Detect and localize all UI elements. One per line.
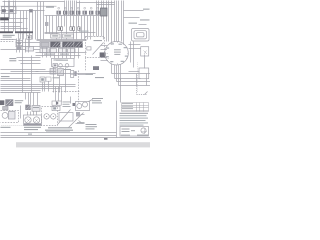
cluster labels [63, 102, 71, 108]
wire vertical group mid [37, 2, 39, 40]
label pump text row1 [24, 127, 41, 128]
valve row block 5 [83, 11, 87, 15]
table cell text r1 [122, 102, 133, 105]
wire [32, 11, 34, 40]
wire [59, 76, 61, 93]
wire [18, 34, 20, 48]
wire [53, 68, 55, 93]
wire right net C [117, 81, 151, 83]
label bottom mid 2 [86, 124, 97, 125]
label left tank [1, 76, 10, 77]
wire top horizontal A [3, 1, 65, 3]
page edge line [1, 137, 151, 139]
bank lower row box 4 [68, 49, 76, 53]
solenoid block a [52, 101, 56, 105]
hose bundle to swivel [114, 1, 116, 42]
dark box below enclosure [93, 66, 99, 70]
wire top horizontal B [77, 2, 115, 4]
blade cylinder [1, 18, 9, 20]
wire [106, 1, 108, 42]
drive diagonal 2 [69, 113, 84, 128]
valve row block 2 [63, 11, 67, 15]
wire [11, 71, 39, 73]
dashed pilot vertical [78, 71, 80, 103]
notes row 6 [120, 125, 144, 126]
drawing bottom line 1 [1, 132, 117, 134]
valve box TL1 [2, 9, 6, 12]
wire [1, 26, 21, 28]
dotted pilot line [137, 63, 139, 93]
wire [70, 1, 72, 16]
tick small [28, 134, 32, 135]
wire [30, 93, 32, 105]
wire label line right 3 [124, 17, 140, 19]
label bank below 2 [60, 54, 69, 55]
pilot valve label lines [17, 57, 41, 59]
gear pump dot 2 [53, 116, 54, 117]
small box in enclosure [87, 47, 91, 50]
track frame dark band [0, 31, 13, 33]
label strainer [15, 100, 24, 101]
swivel joint circle [105, 41, 129, 65]
wire [66, 48, 68, 59]
wire [40, 2, 42, 40]
notes row 5 [120, 122, 149, 123]
upper mid box 2 [46, 77, 51, 81]
page shadow band [16, 142, 150, 147]
wire [114, 65, 116, 79]
wire circle to box A [129, 44, 141, 46]
cushion core [74, 71, 76, 76]
wire [31, 56, 33, 93]
dashed pump box center [42, 107, 58, 126]
wire [130, 42, 132, 63]
pump fittings [28, 112, 37, 116]
wire right net B [115, 78, 141, 80]
cylinder rod wire [9, 18, 28, 20]
drawing bottom line 2 [1, 135, 117, 137]
label center bottom row3 [46, 130, 70, 133]
label bottom mid 1 [77, 122, 85, 123]
control valve bank body [40, 42, 83, 48]
label left bottom [1, 127, 11, 128]
main pump circle 1 [25, 117, 31, 123]
label hydraulic tank [46, 7, 54, 8]
wire [54, 53, 56, 59]
bank hatch overlay [53, 42, 83, 47]
notes row 1 [120, 113, 149, 114]
bus double line lower [37, 40, 87, 42]
wire [70, 48, 72, 59]
supply bus double [1, 90, 41, 92]
wire [101, 57, 108, 59]
wire left labels [1, 78, 31, 80]
relief stack hatched [101, 8, 108, 16]
wire [36, 71, 56, 73]
wire long return lower [1, 73, 96, 75]
relief valve box [58, 69, 64, 76]
wire [1, 28, 28, 30]
box text [52, 35, 58, 36]
solenoid manifold box [52, 58, 75, 66]
box core [28, 36, 30, 38]
title box [120, 127, 149, 137]
pump mark 1 [27, 119, 31, 123]
wire [62, 48, 64, 59]
wire [116, 1, 118, 42]
valve frame TL [2, 7, 17, 14]
wire [111, 1, 113, 43]
component cluster mid-left box 1 [27, 35, 32, 39]
wire under valve row [45, 15, 101, 17]
label swivel arrow [129, 23, 138, 24]
bank lower row box 3 [59, 49, 67, 53]
wire [35, 11, 37, 40]
bank section hatched 3 [75, 42, 83, 47]
wire [116, 65, 118, 82]
wire horizontal mid [36, 52, 87, 54]
solenoid pair A [58, 27, 63, 31]
wire vertical V4 [13, 1, 15, 32]
wire short right [129, 71, 140, 73]
accumulator box right lower [139, 68, 149, 79]
wire [19, 60, 41, 62]
table cell text r3 [122, 107, 133, 110]
pump hatch bar [24, 123, 41, 125]
wire [56, 87, 62, 102]
coupling box [59, 113, 73, 122]
sub core [54, 64, 56, 66]
bank section hatched 1 [51, 42, 60, 47]
wire [118, 65, 120, 86]
pilot dashed lines TL [1, 39, 15, 41]
valve box below manifold 1 [50, 69, 56, 74]
wire top-left bus [1, 10, 45, 12]
wire right net A [112, 73, 151, 75]
wire vertical V5 [15, 1, 17, 32]
track frame dark band b [15, 31, 33, 33]
small valve bottom mid [76, 112, 80, 117]
wire [123, 1, 125, 44]
label strainer 2 [15, 102, 22, 103]
label blade cylinder [3, 35, 15, 36]
manifold port circle 2 [65, 64, 69, 68]
title area left edge [116, 101, 118, 138]
valve row block 1 [57, 11, 61, 15]
solenoid block b [57, 101, 61, 105]
pilot pump circle [2, 113, 8, 119]
travel pump box [76, 102, 90, 111]
valve row block 4 [76, 11, 80, 15]
label center bottom row2 [45, 130, 73, 131]
leader2 [79, 121, 83, 124]
valve row block 3 [70, 11, 74, 15]
arrow mark [145, 92, 148, 95]
strainer box hatched [5, 99, 13, 106]
wire [101, 60, 109, 62]
swivel rim ticks [107, 42, 129, 65]
label right edge 2 [140, 19, 150, 20]
label bottom mid 4 [86, 128, 95, 129]
wire [37, 93, 39, 106]
wire [101, 1, 103, 37]
dashed engine box left [1, 111, 19, 123]
wire tank return [1, 69, 46, 71]
swivel center text 1 [114, 49, 121, 50]
main pump circle 2 [33, 117, 39, 123]
motor box [8, 112, 15, 120]
valve box TL1b [10, 9, 14, 12]
check valve box right upper [141, 47, 149, 56]
wire vertical V3 [9, 1, 11, 19]
label under band [3, 37, 12, 38]
wire [45, 33, 59, 35]
wire [120, 65, 122, 81]
bank lower row box 1 [40, 49, 48, 53]
cushion valve cluster [71, 71, 74, 74]
dark port box [100, 53, 105, 57]
core [56, 102, 58, 104]
solenoid A core [60, 28, 61, 30]
logo cross [142, 129, 148, 135]
rim text specks [106, 43, 128, 62]
wire comb drops [47, 16, 94, 40]
wire vertical V2 [8, 1, 10, 32]
leader line [89, 100, 93, 102]
wire [101, 49, 108, 51]
label cushion [86, 74, 94, 75]
table small marks bottom [131, 130, 135, 131]
manifold sub box [53, 64, 58, 68]
solenoid B core [72, 28, 73, 30]
return bus 1 [1, 84, 76, 86]
notes row 2 [120, 115, 147, 116]
upper mid text [53, 77, 60, 78]
pilot cluster marks [17, 47, 22, 51]
label pilot valve row1 [9, 58, 16, 59]
valve box TL2 [29, 9, 33, 12]
gear pump circle 1 [44, 114, 49, 119]
pilot cluster verticals [17, 39, 29, 53]
notes row 4 [120, 120, 146, 121]
swivel joint pointer diagonal [93, 43, 104, 55]
wire drops from bank [42, 48, 44, 58]
gear pump circle 2 [51, 114, 56, 119]
net vertical b [136, 74, 138, 86]
wire [43, 2, 45, 40]
dashed boundary horizontal [53, 91, 80, 93]
label pilot valve row2 [9, 60, 16, 61]
return bus 2 [1, 86, 76, 88]
wire [144, 55, 146, 69]
filter box dark [0, 101, 4, 105]
swivel dashed enclosure [86, 37, 105, 58]
wire [58, 48, 60, 59]
label right edge 1 [143, 9, 150, 10]
label cushion 2 [95, 77, 104, 78]
wire [1, 22, 23, 24]
title bottom text2 [121, 135, 130, 136]
wire label line right 1 [124, 10, 144, 12]
hose reel spiral inner [134, 31, 147, 39]
solenoid C core [79, 28, 80, 30]
solenoid pair B [70, 27, 75, 31]
wire verticals center-left [22, 58, 24, 93]
wire [118, 1, 120, 42]
dotted row [2, 125, 23, 127]
logo circle [141, 128, 146, 133]
label swivel joint [94, 40, 103, 41]
title box text 2 [122, 131, 130, 132]
upper mid boxes [40, 77, 45, 82]
hose reel spiral [132, 29, 150, 42]
swivel center text 3 [114, 54, 120, 55]
wire [121, 1, 123, 42]
bus double line upper [37, 39, 87, 41]
net vertical a [120, 79, 122, 103]
wire [16, 42, 41, 44]
solenoid pair C [78, 27, 80, 31]
hose reel spiral core [137, 33, 145, 37]
manifold port circle 1 [59, 64, 63, 68]
core [53, 107, 56, 109]
valve row block 7 [96, 11, 100, 15]
check valve mark [144, 51, 148, 55]
notes row 3 [120, 118, 149, 119]
wire [76, 1, 78, 16]
check box mid [26, 47, 34, 52]
wire [1, 49, 46, 51]
solenoid block c [52, 106, 60, 110]
wire [97, 4, 115, 6]
wire [29, 11, 31, 36]
wire [1, 80, 31, 82]
wire [21, 63, 41, 65]
table cell text r2 [122, 105, 133, 108]
wire [29, 34, 31, 48]
box core [17, 42, 20, 44]
wire [78, 48, 80, 59]
net vertical c [146, 74, 148, 86]
pilot line box top A [51, 34, 60, 38]
riser bundle right-center [96, 1, 98, 37]
pump mark 2 [35, 119, 39, 123]
gear pump dot 1 [46, 116, 47, 117]
box with text [32, 106, 40, 112]
wire [1, 92, 41, 94]
small box [3, 107, 8, 111]
wire [46, 48, 48, 58]
wires into swivel left [101, 45, 108, 47]
wire drops to pumps [25, 93, 27, 100]
spiral drop wires [133, 42, 135, 68]
bank section hatched 2 [63, 42, 74, 47]
wire [23, 11, 25, 40]
riser caps [58, 7, 99, 9]
label pump text row2 [24, 129, 38, 130]
wire [74, 48, 76, 59]
wire [98, 1, 100, 37]
wire [74, 1, 76, 16]
label bank below [44, 54, 54, 55]
wire [22, 34, 24, 58]
return bus 3 [1, 88, 61, 90]
dashed vertical boundary [85, 58, 87, 71]
travel pump circle 2 [83, 102, 88, 107]
wire [1, 39, 17, 41]
core [41, 78, 44, 81]
label travel motor 2 [92, 100, 101, 101]
wire vertical group left-center [20, 11, 22, 40]
box text [64, 35, 71, 36]
wire [103, 1, 105, 40]
main pump frame [24, 115, 42, 126]
wire [20, 106, 22, 119]
wire [108, 1, 110, 42]
wire right net D [119, 85, 151, 87]
wire circle to box B [129, 48, 141, 50]
wire [26, 11, 28, 36]
wire top-left horizontal [1, 5, 57, 7]
swivel center text 2 [114, 52, 121, 53]
dashed corner v [136, 86, 138, 95]
wire vertical V1 [4, 1, 6, 32]
relief arrow [59, 70, 63, 75]
label travel motor 3 [92, 102, 102, 103]
label pump box [33, 107, 39, 108]
wire [65, 68, 67, 93]
bank inlet section [41, 43, 49, 47]
label under solenoids [79, 31, 89, 32]
cushion box 2 [71, 74, 74, 77]
valve row block 6 [89, 11, 93, 15]
parts table grid [122, 103, 149, 112]
label center bottom row1 [48, 127, 72, 128]
dark mark [73, 103, 76, 106]
text smudges (tiny unreadable labels) [1, 7, 150, 140]
check box [45, 22, 48, 26]
wire [72, 1, 74, 16]
drive diagonal 1 [58, 110, 71, 125]
swivel drops [111, 64, 113, 74]
wire [45, 32, 96, 34]
label manifold [54, 60, 63, 61]
cushion leader [78, 74, 86, 76]
component cluster mid-left box 2 [16, 41, 23, 46]
wire label line right 2 [139, 24, 147, 26]
valve box hatched [25, 105, 30, 110]
wire [36, 55, 81, 57]
label relief [64, 69, 71, 70]
label travel motor 1 [92, 98, 103, 99]
travel pump circle 1 [77, 104, 82, 109]
pilot line box top B [63, 34, 74, 38]
leader [81, 114, 85, 116]
wire [33, 93, 35, 106]
label leader [76, 123, 85, 125]
title box text 1 [122, 129, 130, 130]
dashed [1, 41, 15, 43]
wire [28, 93, 30, 105]
riser bundle center [64, 1, 66, 16]
wire [79, 1, 81, 16]
page number dot [104, 138, 108, 139]
wire corner [70, 97, 72, 104]
wire [43, 82, 49, 92]
manifold text [56, 60, 68, 61]
title bottom text [137, 135, 148, 136]
wire [66, 1, 68, 16]
